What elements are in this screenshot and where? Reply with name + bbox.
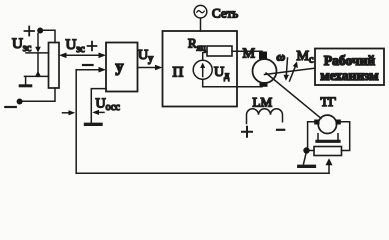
working mechanism block [315, 49, 384, 86]
svg-text:П: П [173, 65, 184, 81]
negative terminal label [5, 106, 16, 108]
svg-text:LM: LM [253, 95, 273, 110]
node dot at feedback pot [303, 147, 309, 153]
arrow up at lower tap [35, 71, 41, 76]
wire resistor to motor top [232, 50, 262, 52]
wiper arrow up [328, 165, 330, 174]
ground GND1 [25, 76, 27, 84]
ТГ terminal left [314, 120, 319, 125]
shaft to working mechanism [265, 68, 315, 74]
feedback potentiometer [314, 147, 342, 156]
wire Uд to resistor [203, 51, 207, 60]
minus label at amplifier input [83, 64, 93, 66]
wire Uд to motor bottom [203, 79, 262, 87]
feedback vertical wire [75, 70, 77, 174]
potentiometer RP1 (setting) [49, 43, 60, 89]
plus terminal of setting supply [25, 27, 35, 36]
mains source circle [194, 5, 207, 18]
wire У to П [138, 67, 157, 69]
node dot bottom-left [17, 99, 23, 105]
Mc arrow [290, 67, 296, 82]
feedback bottom wire [76, 172, 329, 174]
motor terminal top [259, 52, 267, 60]
brush bracket under ТГ [318, 134, 338, 140]
svg-text:Рабочий: Рабочий [324, 53, 375, 68]
resistor Rяц [207, 46, 232, 56]
lower tap line [25, 75, 49, 77]
ground stub at amplifier [91, 89, 106, 123]
ТГ terminal right [336, 120, 341, 125]
vertical between taps [37, 54, 39, 77]
motor M circle [253, 59, 277, 83]
Uосс arrow left [63, 112, 71, 114]
amplifier У [106, 43, 138, 92]
svg-text:ω: ω [277, 50, 286, 64]
converter block П [163, 31, 238, 107]
wire dot to pot left [310, 150, 315, 152]
arrow Uзс down [37, 34, 39, 48]
motor terminal bottom [260, 82, 268, 87]
wire Uзс to amplifier (double arrow) [64, 54, 101, 56]
svg-text:у: у [116, 59, 124, 76]
svg-text:механизм: механизм [320, 68, 378, 83]
node dot top-left [37, 28, 43, 34]
tachogenerator circle [318, 115, 336, 133]
feedback input wire into У [76, 69, 99, 71]
svg-text:Сеть: Сеть [212, 6, 238, 21]
wire minus rail to potentiometer bottom [23, 88, 56, 101]
svg-text:ТГ: ТГ [321, 94, 337, 109]
arrow inside Uд [202, 66, 204, 77]
plus of excitation supply [242, 127, 252, 137]
wire ТГ right terminal down [341, 122, 350, 151]
Uосс arrow right [98, 111, 104, 113]
wire ТГ left terminal down [308, 122, 315, 148]
svg-text:М: М [243, 47, 256, 62]
minus of excitation supply [277, 129, 284, 131]
EMF source Uд circle [193, 60, 212, 79]
wire plus to potentiometer top [43, 30, 55, 42]
wiper tap line upper [26, 52, 49, 54]
ground GND2 [304, 154, 307, 165]
excitation winding LM coil [247, 109, 283, 124]
shaft to tachogenerator [266, 73, 321, 118]
wire mains to П [200, 18, 202, 31]
omega arrow [286, 58, 287, 76]
